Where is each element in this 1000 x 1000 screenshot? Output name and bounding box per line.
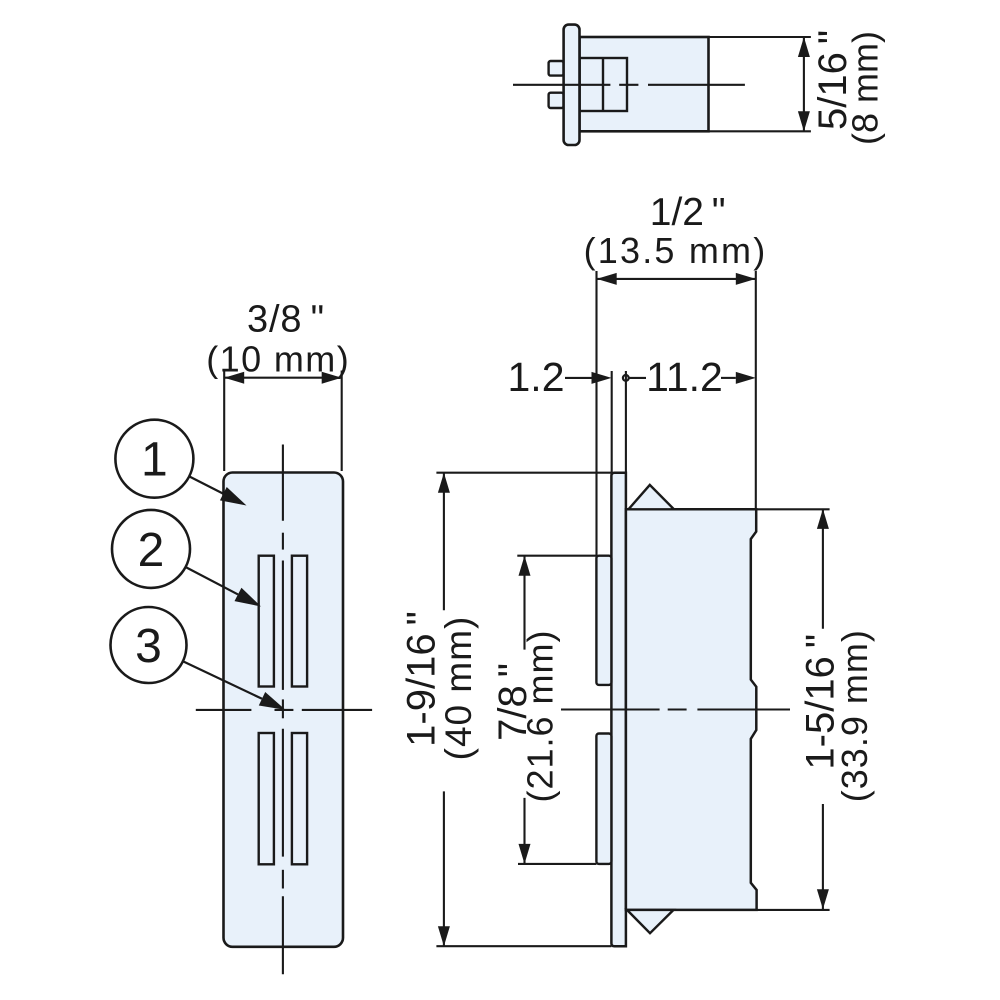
svg-text:3: 3 xyxy=(135,620,162,673)
svg-text:11.2: 11.2 xyxy=(646,354,723,400)
svg-text:(8 mm): (8 mm) xyxy=(845,31,886,145)
svg-text:1-9/16 ": 1-9/16 " xyxy=(400,611,444,747)
svg-text:1: 1 xyxy=(141,434,168,487)
svg-text:3/8 ": 3/8 " xyxy=(247,299,325,341)
svg-text:(40 mm): (40 mm) xyxy=(438,616,479,761)
svg-text:(33.9 mm): (33.9 mm) xyxy=(834,629,875,802)
svg-text:2: 2 xyxy=(138,524,165,577)
svg-text:1/2 ": 1/2 " xyxy=(650,191,726,234)
svg-text:1.2: 1.2 xyxy=(508,354,565,400)
svg-text:(21.6 mm): (21.6 mm) xyxy=(519,629,560,802)
svg-text:(10 mm): (10 mm) xyxy=(206,339,350,380)
svg-text:(13.5 mm): (13.5 mm) xyxy=(584,230,768,271)
